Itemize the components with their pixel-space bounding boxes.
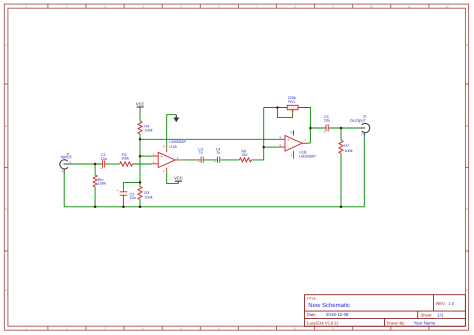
svg-text:R3: R3 (144, 191, 149, 195)
svg-text:100k: 100k (144, 196, 152, 200)
svg-text:1/1: 1/1 (437, 312, 444, 317)
svg-text:2: 2 (153, 160, 155, 164)
svg-text:Your Name: Your Name (414, 320, 436, 325)
svg-text:LM358AP: LM358AP (299, 154, 316, 158)
svg-text:C: C (466, 207, 468, 211)
svg-text:10u: 10u (130, 196, 136, 200)
svg-text:10u: 10u (324, 118, 330, 122)
svg-text:1u: 1u (199, 150, 203, 154)
svg-text:LM358AP: LM358AP (169, 140, 186, 144)
svg-text:INPUT: INPUT (61, 155, 73, 160)
svg-text:+: + (214, 160, 216, 164)
svg-text:B: B (466, 124, 468, 128)
svg-text:D: D (5, 288, 7, 292)
svg-text:12: 12 (445, 4, 449, 8)
svg-text:1: 1 (177, 156, 179, 160)
svg-text:2018-12-08: 2018-12-08 (326, 312, 349, 317)
svg-text:1u: 1u (216, 150, 220, 154)
svg-text:D: D (466, 288, 468, 292)
svg-text:C: C (5, 207, 7, 211)
svg-text:100k: 100k (121, 157, 129, 161)
svg-text:11: 11 (408, 4, 411, 8)
svg-text:REV:: REV: (436, 301, 445, 306)
svg-text:Sheet:: Sheet: (421, 312, 433, 317)
svg-text:Date:: Date: (307, 312, 317, 317)
svg-text:100k: 100k (344, 149, 352, 153)
svg-text:U1A: U1A (169, 145, 177, 149)
svg-text:1: 1 (70, 160, 72, 164)
svg-text:VCC: VCC (174, 175, 183, 180)
svg-text:VCC: VCC (136, 102, 145, 107)
svg-text:+: + (323, 130, 325, 134)
svg-text:1.0: 1.0 (448, 301, 454, 306)
svg-text:2: 2 (361, 132, 363, 136)
svg-text:100k: 100k (144, 129, 152, 133)
svg-text:3: 3 (153, 152, 155, 156)
svg-text:A: A (5, 43, 7, 47)
svg-text:100k: 100k (98, 182, 106, 186)
svg-text:B: B (5, 124, 7, 128)
svg-text:A: A (466, 43, 468, 47)
svg-text:2k2: 2k2 (242, 153, 248, 157)
svg-text:Drawn By:: Drawn By: (387, 320, 405, 325)
svg-text:New Schematic: New Schematic (308, 302, 350, 309)
svg-text:1: 1 (359, 120, 361, 124)
svg-text:10: 10 (369, 4, 373, 8)
svg-text:RV1: RV1 (288, 100, 295, 104)
svg-text:7: 7 (304, 138, 306, 142)
svg-text:TITLE:: TITLE: (307, 296, 317, 300)
svg-text:+: + (100, 166, 102, 170)
svg-text:10u: 10u (101, 157, 107, 161)
svg-text:6: 6 (280, 143, 282, 147)
svg-text:EasyEDA V5.9.22: EasyEDA V5.9.22 (307, 320, 340, 325)
svg-text:5: 5 (280, 136, 282, 140)
svg-text:2: 2 (61, 169, 63, 173)
svg-text:+: + (198, 160, 200, 164)
svg-text:R7: R7 (344, 144, 349, 148)
svg-text:+: + (117, 189, 119, 193)
